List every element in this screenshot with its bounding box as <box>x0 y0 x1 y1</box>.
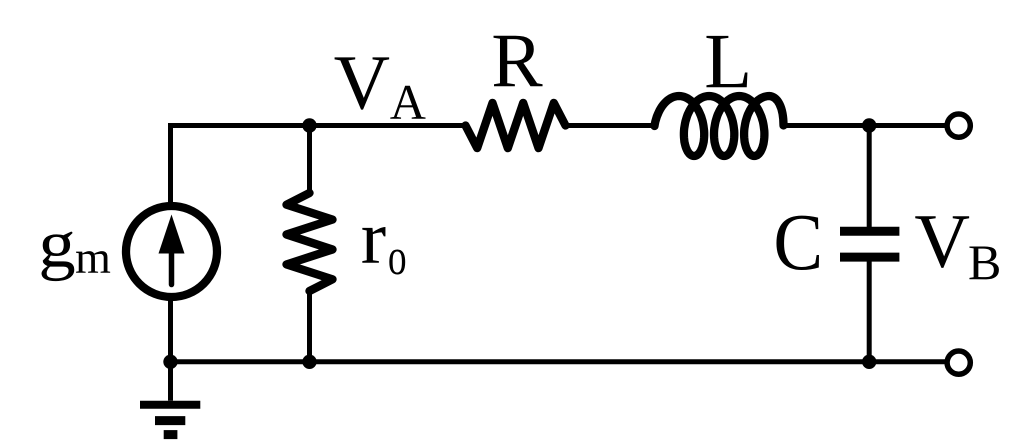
resistor R (zigzag) <box>466 103 566 148</box>
ground bar 3 <box>164 430 178 439</box>
label L (inductor value) <box>706 36 747 87</box>
output terminal bottom (open circle) <box>947 351 970 374</box>
junction dot r_o bottom <box>302 355 316 369</box>
capacitor C top plate <box>840 227 899 236</box>
current source arrow head <box>159 215 185 254</box>
output terminal top (open circle) <box>947 114 970 137</box>
label C (capacitor value) <box>776 216 819 270</box>
wire bottom rail (ground node to output terminal) <box>171 359 946 364</box>
label VB (output voltage) <box>915 216 969 268</box>
junction dot capacitor bottom <box>862 355 876 369</box>
current source gm (circle) <box>126 206 217 297</box>
current source arrow stem <box>169 248 175 285</box>
wire capacitor top lead <box>867 126 872 229</box>
wire top right (L to output terminal) <box>783 123 946 128</box>
wire capacitor bottom lead <box>867 260 872 362</box>
ground bar 2 <box>155 416 185 425</box>
inductor L (coil) <box>655 96 784 156</box>
ground stem <box>168 362 173 401</box>
wire r_o bottom lead <box>307 290 312 362</box>
label gm (transconductance source) <box>42 232 75 282</box>
node A junction dot (top) <box>302 118 316 132</box>
wire current source bottom lead <box>168 299 173 362</box>
ground node junction dot <box>163 355 177 369</box>
ground bar 1 <box>140 401 200 409</box>
capacitor C bottom plate <box>840 253 899 262</box>
wire r_o top lead <box>307 126 312 195</box>
label ro (output resistance) <box>362 227 385 263</box>
node B junction dot (top of capacitor) <box>862 118 876 132</box>
label R (resistor value) <box>494 36 543 86</box>
label VA (node A voltage) <box>335 57 390 109</box>
wire top rail (node VA to R, with left corner down to current source) <box>171 126 466 205</box>
resistor r_o (zigzag) <box>287 193 333 291</box>
wire top middle (R to L) <box>566 123 653 128</box>
